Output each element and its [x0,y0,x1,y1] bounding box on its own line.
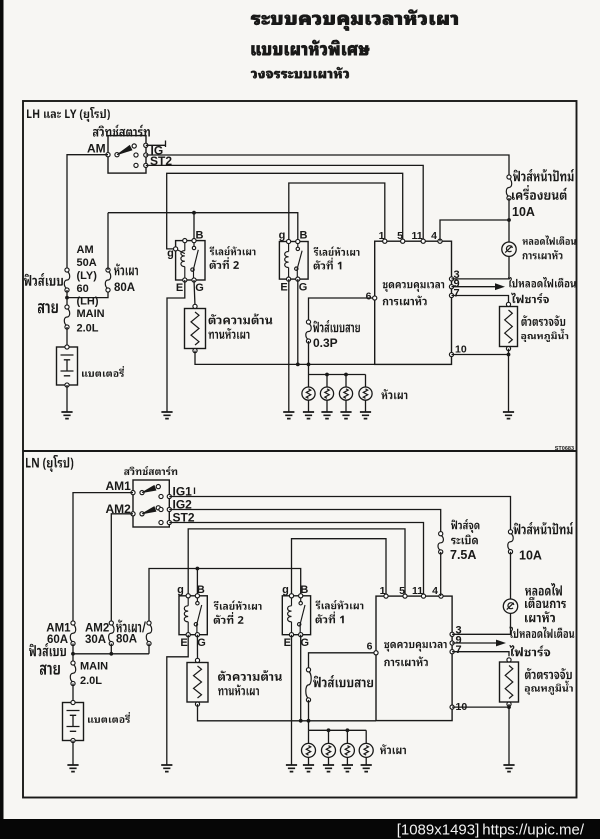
U1 terminals 3 9 7 [449,277,453,281]
junction relay1 G bus [296,363,300,367]
ground relay1 E p2 [286,765,297,772]
U2 terminal 10 [450,705,454,709]
wire relay2 G to resistor p2 [196,635,198,659]
wire fusible link to bus p2 [308,700,310,730]
fuse label meter engine 10A [513,169,574,181]
panel 2 caption LN (Europe) [26,455,73,472]
fusible link label [24,273,63,286]
wire lamp to terminal 3 p2 [452,613,510,634]
fuse label meter 10A p2 [514,522,573,534]
wire AM1 feed [73,493,133,621]
svg-text:g: g [167,248,174,260]
scan left edge black strip [0,0,4,820]
resistor label p2 [218,670,282,681]
svg-text:7: 7 [454,287,460,299]
svg-text:60: 60 [77,283,89,295]
U2 text [384,642,446,652]
U2 top terminals 1 5 11 4 [384,594,388,598]
glow plug bus [309,374,366,376]
glow plug 3 p2 [346,730,348,743]
fusible link p2 [306,671,311,698]
wire AM2 feed [111,514,133,621]
wire 80A up to B-line [107,213,109,270]
wire relay2 G to resistor [194,280,195,306]
glow plug resistor R2 [187,663,208,703]
fuse MAIN 2.0L p2 [70,665,75,682]
wire resistor to bus p2 [198,704,377,721]
arrow label p2 [509,627,574,638]
fusible link label p2 [29,643,66,656]
wire drop to relay2 B [193,213,195,241]
wire battery to ground [66,385,68,412]
battery B1 [57,347,78,385]
svg-text:5: 5 [399,585,405,597]
svg-text:10: 10 [455,344,467,356]
battery label [82,366,124,377]
fuse bus p2 [72,644,74,661]
arrow label [508,277,576,287]
svg-text:11: 11 [411,230,422,242]
lamp label p2 [525,583,562,596]
wire terminal 6 to fusible link [309,298,375,320]
wire bus to 80A fuse [67,290,108,298]
glow plug 2 p2 [328,730,330,743]
title line 2 [252,40,370,55]
water temp sensor S2 [500,662,519,702]
svg-text:6: 6 [366,291,372,303]
wire lamp to terminal 3 [452,256,510,279]
wire AM feed down to fuses [67,155,108,270]
svg-text:80A: 80A [114,282,135,294]
starter switch SW1 box [108,136,146,174]
svg-text:(LY): (LY) [77,270,98,282]
wire drop relay2 B p2 [196,569,198,596]
U2 terminals 3 9 7 [450,632,454,636]
glow plug 1 p2 [308,730,310,743]
starter switch SW2 box [133,480,169,527]
svg-text:AM: AM [77,244,94,256]
water temp sensor S1 [500,307,518,347]
wire relay1 g to terminal 1 [289,183,385,242]
ground sensor p2 [503,765,514,772]
wire relay1 E to ground p2 [291,635,293,765]
U1 terminal 10 [449,352,453,356]
svg-text:7: 7 [456,644,462,656]
fusible link label p2 [313,675,373,687]
ground relay2 E [161,412,172,419]
glow plug 4 [365,375,367,388]
ground glow plug 2 p2 [323,765,334,772]
svg-text:g: g [279,230,286,242]
svg-text:G: G [301,637,310,649]
relay1 label [314,247,360,256]
IG stub wire with end tick [146,144,166,146]
glow relay No.1 p2 [282,596,310,635]
svg-text:60A: 60A [47,634,68,646]
sensor label [521,315,565,326]
fusible link label 0.3P [313,320,360,332]
title line 1 [251,10,458,31]
SW1 contact row 3 ST2 [134,163,138,167]
svg-text:30A: 30A [85,634,106,646]
wire 50A to junction [66,290,68,307]
ground glow plug 4 p2 [361,765,372,772]
wire IG2 to igniter fuse [169,510,440,532]
svg-text:E: E [280,282,287,294]
ground glow plug 4 [360,412,371,419]
glow indicator lamp L2 [503,599,517,613]
lamp label [523,235,576,244]
svg-text:1: 1 [380,585,386,597]
svg-text:G: G [197,637,206,649]
fuse glow 80A [105,272,110,289]
glow plugs label [381,389,407,399]
fuse label glow 80A [114,264,138,276]
svg-text:AM1: AM1 [106,479,132,493]
wire relay1 E to ground [288,279,290,412]
svg-text:2.0L: 2.0L [77,323,99,335]
wire relay2 E to ground [167,280,185,412]
svg-text:AM: AM [87,142,106,156]
svg-text:MAIN: MAIN [77,308,105,320]
wire ST2 to terminal 11 [146,165,423,241]
U1 terminal 6 [373,296,377,300]
SW1 terminal AM [106,153,110,157]
SW1 movable arm [117,146,132,155]
wire terminal 6 to fusible link p2 [309,653,377,668]
watermark bar [0,819,600,839]
junction fusible link bus [307,363,311,367]
wire MAIN to battery [66,327,68,347]
SW1 contact row 2 [134,153,138,157]
fuse AM1 60A [70,625,75,642]
ground glow plug 1 p2 [303,765,314,772]
wire battery to ground p2 [72,741,74,766]
U1 text [383,282,444,292]
glow plug 2 [326,375,328,388]
svg-text:2.0L: 2.0L [80,675,102,687]
svg-text:G: G [195,282,204,294]
svg-text:B: B [300,584,308,596]
ground battery [61,412,72,419]
SW2 contacts IG1 IG2 ST2 [159,494,163,498]
junction relay2 B [192,211,196,215]
svg-text:4: 4 [432,585,438,597]
glow relay No.1 [279,242,308,280]
wire relay1 G to bus p2 [300,635,302,721]
outer frame [23,101,577,798]
svg-text:10A: 10A [512,205,535,219]
ground relay1 E [283,412,294,419]
wire ST2 to terminal 11 [169,523,423,597]
arrow to charge warning lamp p2 [452,642,497,644]
junction fusible link bus p2 [307,719,311,723]
glow plug 4 p2 [365,730,367,743]
wire B feed line to relays [108,213,298,242]
wire resistor to glow bus [195,351,375,365]
svg-text:[1089x1493] https://upic.me/: [1089x1493] https://upic.me/ [397,822,585,839]
U2 terminal 6 [374,651,378,655]
relay2 label [210,246,256,255]
svg-text:B: B [197,584,205,596]
wire MAIN to battery p2 [72,684,74,703]
svg-text:5: 5 [397,230,403,242]
svg-text:G: G [299,282,308,294]
svg-text:10A: 10A [519,548,542,562]
svg-text:g: g [177,584,184,596]
wire sensor to ground and terminal 10 p2 [508,704,510,765]
ground sensor [503,412,514,419]
svg-text:80A: 80A [116,634,137,646]
wire terminal 7 to sensor [452,296,509,303]
panel 1 caption LH and LY (Europe) [27,107,110,122]
svg-text:1: 1 [379,230,385,242]
relay2 label p2 [214,601,262,610]
fuse AM2 30A [109,625,114,642]
ground glow plug 2 [321,412,332,419]
glow plug bus p2 [309,729,367,731]
wire switch row2 to meter fuse [146,155,509,177]
U1 top terminals 1 5 11 4 [383,239,387,243]
SW1 contact IG row [144,143,148,147]
fuse igniter 7.5A [438,535,443,550]
battery label p2 [88,712,130,723]
title line 3 [251,67,349,78]
svg-text:ST0683: ST0683 [555,446,574,452]
wire relay2 g to terminal 5 [167,173,403,249]
glow plug 1 [308,375,310,388]
wire IG1 to meter fuse [169,497,510,530]
glow control unit U2 [376,596,452,721]
wire terminal 4 to fuse junction [440,220,509,241]
ground battery p2 [67,765,78,772]
fuse meter/engine 10A [506,179,511,197]
svg-text:AM2: AM2 [85,622,109,634]
svg-text:AM1: AM1 [46,622,71,634]
svg-text:B: B [300,230,308,242]
svg-text:E: E [180,637,187,649]
fuse label igniter 7.5A [451,519,479,533]
glow plug resistor R1 [185,309,206,349]
svg-text:B: B [196,230,204,242]
SW2 terminal AM1 [131,491,135,495]
junction battery bus [65,296,69,300]
wire fuse to lamp p2 [510,552,512,599]
SW2 arm AM1 [142,485,156,492]
junction terminal4 branch [507,218,511,222]
starter switch label p2 [124,466,177,475]
SW2 arm AM2 [142,507,156,514]
glow plugs label p2 [380,744,406,754]
IG1 end tick [194,488,196,495]
svg-text:6: 6 [367,641,373,653]
svg-text:E: E [284,637,291,649]
fuse meter 10A p2 [508,533,513,550]
panel divider [23,450,577,452]
resistor label [209,314,273,325]
battery B2 [63,703,84,741]
wire fusible link to bus [308,341,310,375]
glow control unit U1 [375,241,452,364]
relay1 label p2 [315,600,363,609]
glow relay No.2 [176,241,205,280]
starter switch label [93,125,150,137]
wire sensor to ground and terminal 10 [508,349,510,412]
svg-text:g: g [282,584,289,596]
junction relay2 B p2 [196,567,200,571]
wire 7.5A fuse to terminal 4 [440,552,442,596]
ground relay2 E p2 [161,765,172,772]
fuse label glow/80A p2 [116,620,146,633]
wire relay2 E to ground p2 [167,635,188,765]
glow plug 3 [345,375,347,388]
junction relay1 G bus p2 [299,719,303,723]
fuse MAIN 2.0L [64,309,69,326]
svg-text:50A: 50A [77,257,97,269]
ground glow plug 3 [340,412,351,419]
wire relay2 g to terminal 5 p2 [188,529,405,596]
fuse glow 80A p2 [146,625,151,642]
svg-text:4: 4 [431,230,437,242]
svg-text:MAIN: MAIN [80,661,108,673]
svg-text:0.3P: 0.3P [313,336,338,350]
svg-text:E: E [176,282,183,294]
wire fuse to lamp [508,198,510,242]
wire B feed p2 [149,569,301,621]
sensor label p2 [525,668,572,679]
glow relay No.2 p2 [179,596,207,635]
ground glow plug 3 p2 [342,765,353,772]
fuse AM 50A(LY)/60(LH) [64,272,69,289]
arrow to charge warning lamp [452,286,497,288]
fusible link 0.3P [306,324,311,340]
ground glow plug 1 [303,412,314,419]
wire relay1 G to bus [297,279,299,364]
SW2 terminal AM2 [131,512,135,516]
glow indicator lamp L1 [502,242,516,256]
svg-text:11: 11 [412,585,423,597]
wire relay1 g to terminal 1 p2 [292,539,387,596]
wire terminal 7 to sensor p2 [452,652,509,657]
svg-text:7.5A: 7.5A [450,548,476,562]
